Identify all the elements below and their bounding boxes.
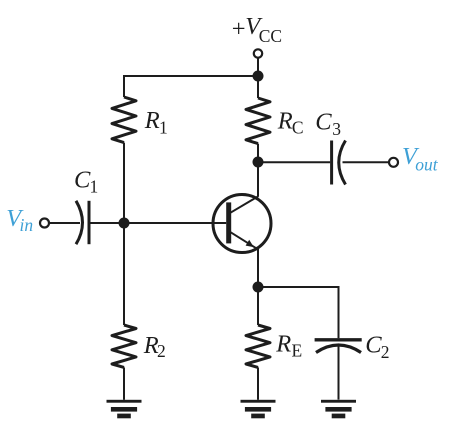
svg-text:E: E <box>292 340 303 360</box>
svg-text:1: 1 <box>90 177 99 197</box>
svg-text:1: 1 <box>159 118 168 138</box>
svg-text:out: out <box>415 155 439 175</box>
svg-text:3: 3 <box>332 119 341 139</box>
svg-text:2: 2 <box>157 341 166 361</box>
svg-text:in: in <box>20 215 34 235</box>
svg-text:R: R <box>277 107 293 134</box>
svg-text:C: C <box>315 109 332 136</box>
svg-text:C: C <box>74 167 91 194</box>
svg-text:CC: CC <box>259 26 282 46</box>
svg-text:R: R <box>144 107 160 134</box>
svg-text:C: C <box>292 118 304 138</box>
svg-text:R: R <box>275 331 291 358</box>
svg-text:2: 2 <box>381 342 390 362</box>
svg-text:+: + <box>232 15 246 42</box>
